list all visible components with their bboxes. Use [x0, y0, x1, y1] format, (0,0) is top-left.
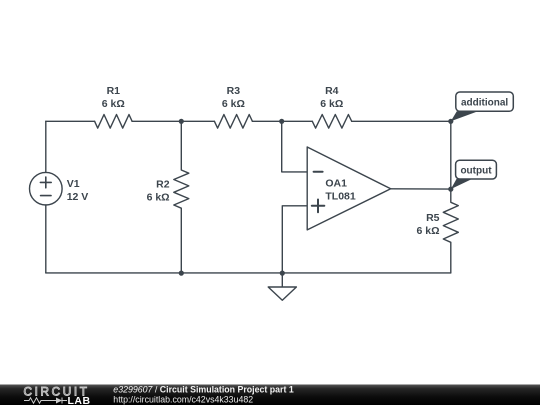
- svg-text:R4: R4: [325, 85, 339, 97]
- op-amp inverting pin - symbol: [314, 171, 323, 173]
- wire top: V1 to R1: [46, 120, 95, 122]
- svg-text:6 kΩ: 6 kΩ: [222, 98, 245, 110]
- resistor R1: [95, 115, 133, 129]
- wire V1 bottom lead: [45, 205, 47, 273]
- net flag output box: [456, 160, 497, 179]
- svg-text:R2: R2: [156, 178, 170, 190]
- svg-text:OA1: OA1: [325, 177, 347, 189]
- wire inverting input feed: node B down and right to op-amp: [282, 121, 308, 172]
- svg-text:R5: R5: [426, 212, 440, 224]
- ground stub wire: [281, 273, 283, 287]
- footer logo resistor-diode line: [24, 398, 67, 404]
- ground symbol triangle: [268, 287, 296, 300]
- voltage source V1 circle: [30, 172, 63, 205]
- op-amp OA1 triangle: [307, 147, 391, 230]
- V1 plus symbol: [40, 177, 51, 188]
- flag tail for net additional: [451, 111, 478, 121]
- wire non-inverting input: op-amp left, down to ground junction: [282, 206, 307, 273]
- op-amp non-inverting pin + symbol: [312, 200, 325, 213]
- svg-text:TL081: TL081: [325, 191, 356, 203]
- wire top-left vertical (V1 top lead): [45, 121, 47, 172]
- svg-text:e3299607 / Circuit Simulation: e3299607 / Circuit Simulation Project pa…: [113, 384, 294, 394]
- svg-text:6 kΩ: 6 kΩ: [416, 225, 439, 237]
- resistor R5 (vertical) with leads: [443, 189, 458, 273]
- node B junction dot (R3/R4/inverting): [279, 119, 284, 124]
- svg-text:R3: R3: [227, 85, 241, 97]
- bottom rail R2 junction dot: [179, 271, 184, 276]
- svg-text:6 kΩ: 6 kΩ: [102, 98, 125, 110]
- flag tail for net output: [451, 179, 472, 189]
- svg-text:output: output: [460, 165, 492, 176]
- svg-text:http://circuitlab.com/c42vs4k3: http://circuitlab.com/c42vs4k33u482: [113, 394, 253, 404]
- svg-text:6 kΩ: 6 kΩ: [147, 191, 170, 203]
- wire bottom rail: [46, 272, 451, 274]
- net flag additional box: [456, 92, 514, 111]
- wire top: R1 to R3 (through node A): [132, 120, 214, 122]
- resistor R2 (vertical) with leads: [174, 121, 189, 273]
- V1 minus symbol: [41, 195, 51, 197]
- svg-text:V1: V1: [67, 178, 80, 190]
- output node junction dot: [448, 187, 453, 192]
- node A junction dot (R1/R2): [179, 119, 184, 124]
- resistor R4: [312, 115, 351, 129]
- svg-text:R1: R1: [107, 85, 121, 97]
- svg-text:6 kΩ: 6 kΩ: [320, 98, 343, 110]
- footer bar: [0, 385, 540, 405]
- node C junction dot (additional): [448, 119, 453, 124]
- wire top: R3 to R4 (through node B): [252, 120, 312, 122]
- resistor R3: [214, 115, 252, 129]
- wire top: R4 to node C (additional): [352, 120, 451, 122]
- svg-text:12 V: 12 V: [67, 191, 89, 203]
- svg-text:additional: additional: [461, 97, 508, 108]
- wire right vertical: node C down to output node: [450, 121, 452, 189]
- wire op-amp output to output node: [391, 188, 451, 190]
- svg-text:LAB: LAB: [68, 395, 91, 405]
- ground junction dot: [280, 271, 285, 276]
